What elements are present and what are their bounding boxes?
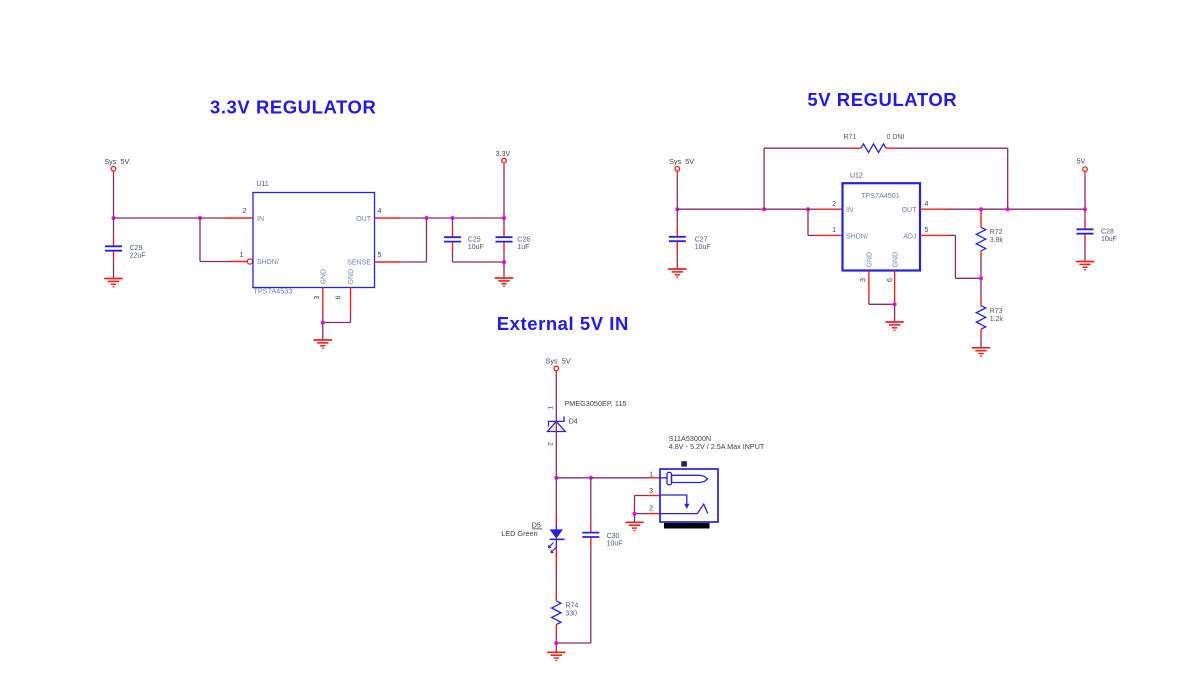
svg-text:R74: R74 [565,603,578,610]
wire SHDN branch (U12) [808,209,815,235]
ground under U12 [885,322,903,330]
svg-text:OUT: OUT [902,207,918,214]
wire rail to SHDN branch [114,217,201,219]
jack sleeve contact (pin 2) [660,504,708,513]
svg-text:External 5V IN: External 5V IN [497,313,629,334]
node junction SHDN branch (U12) [806,207,810,211]
svg-text:SHDN/: SHDN/ [846,234,868,241]
svg-text:R73: R73 [990,308,1003,315]
op-amp/IC U11 TPS7A4533 body [253,181,375,296]
capacitor C28 10uF [1077,209,1117,261]
power flag Sys 5V (5V section) [669,157,694,175]
resistor R72 3.9k [976,209,1003,278]
svg-text:5: 5 [925,227,929,234]
node junction R71 right [1006,207,1010,211]
node junction Sys5V/C27 [675,207,679,211]
svg-text:1: 1 [548,406,555,410]
U11 pin 3 GND stub [314,288,323,314]
ground at bottom [547,652,565,660]
power flag Sys 5V (external section) [546,356,571,374]
wire node to C30 tap [556,477,591,479]
title External 5V IN [497,313,629,334]
svg-text:Sys 5V: Sys 5V [546,356,571,365]
svg-text:1: 1 [240,252,244,259]
wire OUT rail [399,217,504,219]
wire C26 bottom to ground [503,262,505,278]
wire GND join to ground [322,323,324,340]
node junction C25 tap [451,216,455,220]
IC U12 TPS7A4501 body [843,173,921,271]
capacitor C27 10uF [669,209,711,268]
ground under R73 [972,348,990,356]
node junction at C26 bottom [502,260,506,264]
capacitor C26 1uF [496,218,531,262]
U11 pin name SHDN/ [257,259,279,266]
ground under C28 [1076,262,1094,270]
svg-text:6: 6 [336,296,343,300]
U11 pin name GND (pin 6) [348,269,355,285]
wire SENSE feedback [399,218,427,262]
wire node to bottom ground [555,643,557,652]
wire U12 GND pins join [869,296,895,304]
capacitor C30 10uF [582,478,622,643]
power flag Sys 5V (3.3V section) [104,157,129,175]
jack switch contact (pin 3) [660,495,689,509]
svg-text:4: 4 [378,208,382,215]
svg-text:GND: GND [867,252,874,268]
U11 pin 2 IN stub [226,208,253,218]
node junction R74/C30/ground [554,641,558,645]
U12 pin 1 SHDN/ stub [815,227,843,235]
resistor R71 0 DNI [844,134,905,153]
U11 pin 4 OUT stub [375,208,400,218]
U12 pin name GND (pin 3) [867,252,874,268]
node junction jack ground tie [633,512,637,516]
svg-text:1uF: 1uF [517,244,529,251]
wire ADJ to divider [948,235,981,278]
svg-text:4: 4 [925,201,929,208]
wire 5V down to rail [1084,175,1086,209]
node junction SHDN branch [198,216,202,220]
wire GND pins join [323,314,351,323]
svg-text:5V: 5V [1077,159,1086,166]
U11 pin 1 SHDN/ stub with bubble [230,252,252,264]
svg-text:R72: R72 [990,229,1003,236]
svg-text:ADJ: ADJ [903,234,916,241]
svg-text:OUT: OUT [356,216,372,223]
wire rail to U11 IN [200,217,226,219]
U12 pin 3 GND stub [860,271,869,297]
wire C25 bottom to C26 bottom [453,261,505,263]
title 3.3V REGULATOR [210,97,376,118]
svg-text:IN: IN [846,207,853,214]
svg-text:GND: GND [892,252,899,268]
jack J1 pin 3 stub [648,488,660,496]
U11 pin name IN [257,216,264,223]
U11 pin 5 SENSE stub [375,252,400,262]
node junction GND join [321,321,325,325]
node junction C30 tap [589,476,593,480]
svg-text:0 DNI: 0 DNI [887,134,905,141]
svg-text:3.3V: 3.3V [496,151,511,158]
U11 pin name OUT [356,216,372,223]
svg-text:C28: C28 [1101,229,1114,236]
wire C30 tap to jack pin 1 [591,477,646,479]
wire R71 bypass left leg [764,148,852,209]
wire jack pin3 to pin2 tie [635,496,649,514]
U12 pin 4 OUT stub [920,201,948,209]
svg-text:2: 2 [548,442,555,446]
wire tie to ground [634,514,636,522]
jack J1 pin 1 stub [646,471,660,478]
jack J1 pin 2 stub [648,506,660,514]
svg-text:SHDN/: SHDN/ [257,259,279,266]
svg-text:GND: GND [348,269,355,285]
wire input rail [677,208,764,210]
capacitor C29 22uF [105,218,146,278]
U12 pin name GND (pin 6) [892,252,899,268]
wire Sys5V down to D4 cathode [555,375,557,417]
svg-text:4.8V - 5.2V / 2.5A Max INPUT: 4.8V - 5.2V / 2.5A Max INPUT [669,442,765,451]
resistor R74 330 [552,592,579,643]
svg-text:IN: IN [257,216,264,223]
svg-text:TPS7A4501: TPS7A4501 [861,191,900,200]
title 5V REGULATOR [807,89,957,110]
jack center-pin barrel symbol [660,472,708,485]
U12 pin name SHDN/ [846,234,868,241]
svg-text:Sys 5V: Sys 5V [669,157,694,166]
svg-text:1.2k: 1.2k [990,316,1004,323]
U11 pin 6 GND stub [336,288,351,314]
svg-text:R71: R71 [844,134,857,141]
capacitor C25 10uF [444,218,484,262]
wire Sys5V down to rail [113,175,115,218]
wire SHDN branch down-right [200,218,230,262]
svg-text:1: 1 [832,227,836,234]
node junction 3.3V / C26 [502,216,506,220]
wire Sys5V down to rail (5V) [676,175,678,209]
svg-text:C26: C26 [517,236,530,243]
svg-text:GND: GND [321,269,328,285]
svg-text:10uF: 10uF [607,541,623,548]
ground under C26 [495,278,513,286]
svg-text:C27: C27 [695,237,708,244]
svg-text:3: 3 [649,488,653,495]
svg-text:SENSE: SENSE [347,260,371,267]
svg-text:10uF: 10uF [468,244,484,251]
svg-text:U11: U11 [257,181,269,188]
node junction SENSE feedback [425,216,429,220]
U12 pin 2 IN stub [816,201,843,209]
U12 pin 6 GND stub [887,271,895,303]
wire D4 anode down to node [555,432,557,478]
wire U12 GND to ground [894,304,896,321]
wire rail to SHDN branch (U12) [764,208,808,210]
svg-text:1: 1 [649,471,653,478]
node junction 5V/C28 [1083,207,1087,211]
svg-text:C29: C29 [130,245,143,252]
U12 pin 5 ADJ stub [920,227,948,235]
U11 pin name GND (pin 3) [321,269,328,285]
U12 pin name OUT [902,207,918,214]
node junction R72 tap [979,207,983,211]
node junction ext-in / D5 [554,476,558,480]
svg-text:PMEG3050EP, 115: PMEG3050EP, 115 [564,399,626,408]
svg-text:22uF: 22uF [130,253,146,260]
LED D5 (LED Green) [501,478,564,592]
wire rail to U12 IN [808,208,816,210]
ground under U11 [314,340,332,348]
node junction ADJ/R72/R73 [979,276,983,280]
wire R71 bypass right leg [896,148,1007,209]
svg-text:2: 2 [649,506,653,513]
U12 pin name IN [846,207,853,214]
ground under C29 [104,279,122,287]
svg-text:D4: D4 [569,418,578,426]
svg-text:5: 5 [378,252,382,259]
svg-text:6: 6 [887,278,894,282]
svg-text:LED Green: LED Green [501,529,538,538]
svg-text:2: 2 [243,208,247,215]
U11 pin name SENSE [347,260,371,267]
svg-text:TPS7A4533: TPS7A4533 [254,287,293,296]
U12 pin name ADJ [903,234,916,241]
power flag 3.3V [496,151,511,167]
svg-text:C25: C25 [468,236,481,243]
svg-text:3.9k: 3.9k [990,237,1004,244]
svg-text:10uF: 10uF [1101,236,1117,243]
wire OUT rail (5V) [948,208,1085,210]
node junction U12 GND join [893,302,897,306]
resistor R73 1.2k [976,278,1003,347]
svg-text:5V REGULATOR: 5V REGULATOR [807,89,957,110]
power flag 5V [1077,159,1088,176]
svg-text:3.3V REGULATOR: 3.3V REGULATOR [210,97,376,118]
svg-text:2: 2 [832,201,836,208]
ground at jack [625,522,643,530]
svg-text:U12: U12 [850,173,863,180]
node junction at C29 tap [112,216,116,220]
ground under C27 [668,269,686,277]
svg-text:3: 3 [314,296,321,300]
node junction R71 left [762,207,766,211]
svg-text:330: 330 [565,611,577,618]
svg-text:Sys 5V: Sys 5V [104,157,129,166]
wire C30 bottom to R74 bottom [556,642,591,644]
svg-text:3: 3 [860,278,867,282]
connector J1 S11A53000N barrel jack body [660,434,765,529]
wire 3.3V down to rail [503,167,505,218]
svg-text:10uF: 10uF [695,244,711,251]
diode D4 PMEG3050EP (schottky) [548,399,627,446]
svg-text:C30: C30 [607,533,620,540]
